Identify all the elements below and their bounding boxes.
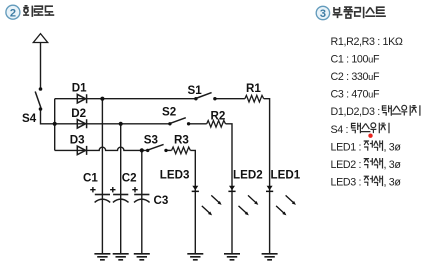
svg-text:LED2 :: LED2 : xyxy=(331,159,362,171)
switch S1 lever xyxy=(197,93,212,98)
resistor R2 xyxy=(207,121,226,128)
red dot marker xyxy=(368,134,372,138)
junction dot D3-C3 xyxy=(140,148,144,152)
svg-text:R3: R3 xyxy=(174,134,189,147)
svg-text:R2: R2 xyxy=(211,110,226,123)
wire R2 to LED2 column xyxy=(226,124,233,254)
LED1 symbol xyxy=(266,186,273,192)
parts list xyxy=(331,36,403,189)
wire R3 to LED3 column xyxy=(190,150,195,253)
junction dot D2-C2 xyxy=(119,122,123,126)
svg-text:D2: D2 xyxy=(71,107,86,120)
korean 택스위치 line 5 xyxy=(382,105,420,116)
switch S3 lever xyxy=(149,144,164,149)
title text 부품리스트 xyxy=(333,7,386,18)
resistor R3 xyxy=(172,147,191,154)
svg-text:C1: C1 xyxy=(83,172,98,185)
wire S4 to corner and to node A xyxy=(41,110,55,124)
diode D1 xyxy=(77,94,86,103)
capacitor C2 symbol xyxy=(113,195,129,203)
antenna symbol xyxy=(33,34,47,43)
svg-text:S3: S3 xyxy=(144,134,159,147)
LED1 emission arrows xyxy=(276,195,296,215)
korean 적색 line 7 xyxy=(364,140,383,151)
title text 회로도 xyxy=(23,6,54,17)
svg-text:LED3: LED3 xyxy=(160,169,190,182)
svg-text:S4 :: S4 : xyxy=(331,124,349,136)
junction node A dot xyxy=(53,122,57,126)
wire C2 column xyxy=(120,124,122,254)
capacitor C3 symbol xyxy=(134,195,150,203)
junction dot D1-C1 xyxy=(100,97,104,101)
svg-text:C3: C3 xyxy=(154,194,169,207)
S3 right terminal dot xyxy=(164,149,167,152)
svg-text:LED1: LED1 xyxy=(271,169,301,182)
ground under LED3 xyxy=(187,254,203,260)
capacitor C2 plus sign xyxy=(110,187,115,192)
title circled 2 xyxy=(6,5,20,19)
ground under C2 xyxy=(113,254,129,260)
svg-text:, 3ø: , 3ø xyxy=(384,177,402,189)
LED2 symbol xyxy=(228,186,235,192)
svg-text:LED1 :: LED1 : xyxy=(331,141,362,153)
S1 left terminal dot xyxy=(194,97,197,100)
svg-text:C1 : 100uF: C1 : 100uF xyxy=(331,53,380,65)
svg-text:C3 : 470uF: C3 : 470uF xyxy=(331,89,380,101)
ground under LED2 xyxy=(224,254,240,260)
ground under LED1 xyxy=(262,254,278,260)
korean 적색 line 8 xyxy=(364,158,383,169)
svg-text:S2: S2 xyxy=(162,106,176,119)
ground under C3 xyxy=(134,254,150,260)
LED2 emission arrows xyxy=(239,195,259,215)
svg-text:S4: S4 xyxy=(22,112,37,125)
svg-text:2: 2 xyxy=(10,7,16,19)
wire D1 branch xyxy=(55,98,196,100)
resistor R1 xyxy=(245,95,264,102)
svg-text:LED3 :: LED3 : xyxy=(331,177,362,189)
LED3 emission arrows xyxy=(202,195,222,215)
S3 left terminal dot xyxy=(146,149,149,152)
wire antenna to S4 xyxy=(40,43,42,88)
title circled 3 xyxy=(316,6,329,20)
svg-text:3: 3 xyxy=(320,8,326,20)
S4 bottom terminal dot xyxy=(39,107,43,111)
svg-text:R1,R2,R3 : 1KΩ: R1,R2,R3 : 1KΩ xyxy=(331,36,403,48)
svg-text:D3: D3 xyxy=(70,134,85,147)
S2 left terminal dot xyxy=(168,122,171,125)
S4 top terminal dot xyxy=(39,87,43,91)
korean 적색 line 9 xyxy=(364,176,383,187)
capacitor C1 symbol xyxy=(95,195,111,203)
S2 right terminal dot xyxy=(187,122,190,125)
svg-text:C2 : 330uF: C2 : 330uF xyxy=(331,71,380,83)
wire D2 branch xyxy=(55,123,170,125)
svg-text:D1: D1 xyxy=(72,81,87,94)
switch S4 lever xyxy=(35,92,41,108)
switch S2 lever xyxy=(171,118,186,123)
wire R1 to LED1 column xyxy=(264,99,270,254)
svg-text:S1: S1 xyxy=(188,84,203,97)
capacitor C3 plus sign xyxy=(132,187,137,192)
diode D3 xyxy=(77,146,86,155)
svg-text:LED2: LED2 xyxy=(233,169,263,182)
svg-text:C2: C2 xyxy=(122,172,137,185)
svg-text:R1: R1 xyxy=(246,82,261,95)
circuit wires and symbols xyxy=(33,34,269,254)
diode D2 xyxy=(77,119,86,128)
wire S3 to R3 xyxy=(166,149,172,151)
korean 택스위치 line 6 xyxy=(352,123,390,134)
svg-text:D1,D2,D3 :: D1,D2,D3 : xyxy=(331,106,380,118)
wire S1 to R1 xyxy=(215,98,245,100)
wire C3 column xyxy=(141,150,143,253)
svg-text:, 3ø: , 3ø xyxy=(384,159,402,171)
S1 right terminal dot xyxy=(213,97,216,100)
svg-text:, 3ø: , 3ø xyxy=(384,141,402,153)
capacitor C1 plus sign xyxy=(90,187,95,192)
wire D3 branch with hops xyxy=(55,147,148,150)
wire S2 to R2 xyxy=(189,123,207,125)
LED3 symbol xyxy=(192,186,199,192)
ground under C1 xyxy=(94,254,110,260)
wire left rail xyxy=(54,99,56,151)
wire C1 column xyxy=(101,99,103,254)
